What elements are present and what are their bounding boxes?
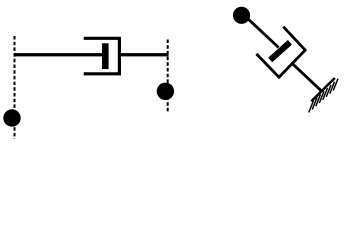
wire: upper rod of right damper [243, 14, 279, 48]
ground hatching [309, 79, 338, 113]
piston (right damper) [270, 42, 290, 60]
wire: lower rod of right damper [292, 63, 322, 91]
piston (left damper) [102, 43, 109, 69]
wire: right piston rod [118, 53, 169, 56]
cylinder (right damper, open upper-left) [256, 27, 305, 77]
cylinder (left damper, open left) [84, 38, 120, 74]
node C (upper pivot dot, right damper) [233, 7, 250, 24]
left damper: dashed link line (left) [14, 36, 16, 139]
node A (left pivot dot) [3, 109, 20, 126]
node B (right pivot dot) [157, 83, 174, 100]
ground baseline [311, 78, 335, 101]
wire: left piston rod [14, 53, 102, 56]
dashed link line (right) [167, 40, 169, 114]
